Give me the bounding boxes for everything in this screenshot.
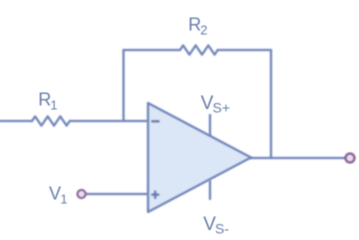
wire output (251, 157, 345, 159)
wire VS+ stub (209, 115, 211, 136)
svg-text:1: 1 (60, 192, 67, 207)
svg-text:2: 2 (200, 23, 207, 38)
wire feedback right vertical (270, 50, 272, 158)
label V1 (49, 183, 67, 206)
wire feedback top left horizontal (124, 49, 181, 51)
label VS+ (201, 93, 230, 116)
wire R1 to op-amp inverting input (70, 120, 147, 122)
svg-text:S+: S+ (213, 100, 231, 116)
terminal V1 input port (77, 190, 85, 198)
label VS- (203, 214, 229, 237)
wire feedback top right horizontal (218, 49, 271, 51)
terminal output port (346, 154, 355, 163)
op-amp non-inverting pin + sign (151, 191, 159, 199)
label R1 (38, 89, 57, 112)
wire feedback left vertical (122, 50, 124, 121)
svg-text:1: 1 (50, 97, 57, 112)
resistor R2 (180, 45, 218, 54)
wire inverting input left segment (0, 120, 32, 122)
wire VS- stub (209, 181, 211, 199)
op-amp inverting pin - sign (151, 120, 159, 122)
label R2 (188, 15, 207, 38)
wire non-inverting input (86, 193, 147, 195)
svg-text:S-: S- (215, 221, 229, 237)
op-amp U1 (148, 103, 251, 212)
resistor R1 (32, 116, 70, 125)
